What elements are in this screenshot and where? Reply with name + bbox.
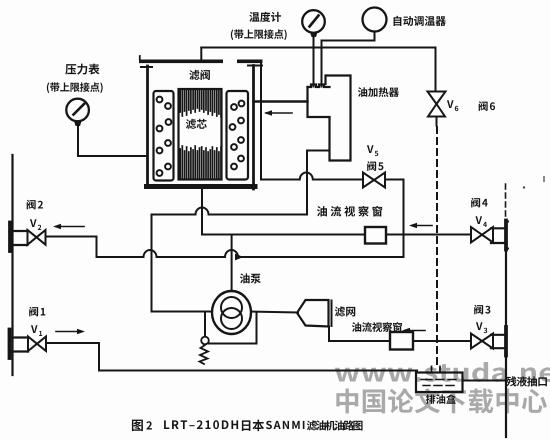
nozzle flange V4 — [491, 184, 508, 250]
wire heater drain riser and middle return line — [152, 151, 330, 312]
valve V5 — [363, 173, 385, 188]
speck — [523, 186, 525, 188]
label 阀2 — [27, 200, 43, 210]
wire V1 branch to bottom line — [47, 343, 418, 371]
oil heater 油加热器 — [308, 76, 351, 161]
label 压力表 — [65, 64, 99, 75]
sight glass 1 油流视察窗 — [365, 227, 386, 244]
wire V5 outlet down — [385, 180, 404, 258]
label V3 — [476, 322, 483, 330]
flow arrow near V1 — [56, 329, 85, 335]
label 阀3 — [474, 305, 490, 315]
flow arrow above V4 line — [409, 223, 432, 229]
label 油加热器 — [358, 87, 399, 97]
flow arrow on vessel-heater pipe — [264, 110, 292, 116]
wire right header pipe — [505, 249, 507, 437]
label 滤网 — [335, 306, 355, 316]
wire pump feed from line B — [231, 235, 233, 292]
dashed drain line from V6 to drain box — [436, 127, 438, 368]
label 阀5 — [367, 161, 383, 171]
filter right plate — [227, 91, 249, 180]
watermark row1 www.studa.net — [335, 362, 550, 382]
relief valve loop under pump — [205, 313, 257, 344]
caption 图2 LRT-210DH 日本 SANMI 滤油机油路图 — [132, 420, 143, 432]
wire return line V2-branch to V5-drop — [46, 237, 404, 258]
drain box 排油盒 — [416, 367, 463, 393]
label 油流视察窗 upper — [317, 206, 382, 217]
valve V2 — [28, 230, 46, 245]
filter element 滤芯 block — [179, 89, 222, 180]
label 阀4 — [471, 198, 487, 208]
oil pump — [212, 291, 251, 334]
wire drain box to right pipe — [463, 380, 507, 382]
speck — [543, 176, 545, 182]
pressure gauge P1 — [66, 99, 89, 126]
filter vessel lid — [139, 56, 263, 67]
filter vessel walls — [144, 66, 258, 190]
valve V3 — [471, 334, 493, 349]
wire thermostat sensor line — [322, 32, 375, 87]
wire lid-side line down to V5 pipe — [261, 63, 363, 180]
label 排油盒 — [426, 394, 456, 404]
left pipe header — [11, 155, 13, 375]
wire vessel-top to V6 — [201, 48, 435, 92]
valve V6 — [428, 92, 446, 126]
thermometer gauge T1 — [302, 10, 325, 37]
label V4 — [475, 216, 482, 224]
nozzle flange V1 — [10, 330, 29, 359]
wire sight glass 2 to V3 — [413, 340, 471, 342]
sight glass 2 油流视察窗 — [390, 332, 413, 350]
label 阀6 — [479, 101, 495, 111]
flow arrow on return line — [235, 254, 244, 261]
drain box liquid marks — [421, 380, 456, 386]
label 自动调温器 — [394, 16, 446, 26]
wire pressure-gauge to vessel — [78, 126, 147, 156]
label （带上限接点） top — [231, 29, 287, 40]
wire vessel to heater — [254, 100, 308, 102]
wire pump outlet to strainer — [251, 312, 298, 313]
label 温度计 — [249, 12, 281, 22]
label （带上限接点） left — [47, 82, 103, 93]
wire vessel bottom drain to sight glass line — [202, 189, 365, 235]
vessel top outlet stub — [200, 48, 202, 60]
nozzle flange V3 — [491, 327, 506, 356]
valve V1 — [28, 337, 46, 352]
label 油流视察窗 lower — [352, 322, 402, 332]
flow arrow near V2 — [53, 224, 84, 230]
label V1 — [31, 325, 38, 333]
label 滤阀 — [189, 70, 210, 80]
wire sight glass 1 to V4 — [386, 234, 471, 236]
thermostat regulator — [363, 8, 387, 32]
watermark row2 中国论文下载中心 — [336, 388, 547, 413]
label 阀1 — [29, 307, 45, 317]
relief valve — [200, 337, 209, 364]
wire strainer to sight glass 2 — [329, 327, 390, 342]
label V6 — [447, 100, 454, 108]
label 油泵 — [240, 273, 261, 283]
label 残液抽口 — [506, 376, 547, 386]
flow arrow above V3 line — [402, 328, 425, 334]
strainer 滤网 — [297, 300, 329, 327]
wire thermometer sensor line — [313, 37, 315, 87]
valve V4 — [471, 227, 493, 243]
label V2 — [30, 219, 37, 227]
label V5 — [367, 145, 374, 153]
label 滤芯 — [186, 119, 207, 129]
filter left plate — [154, 91, 174, 181]
nozzle flange V2 — [10, 223, 28, 252]
